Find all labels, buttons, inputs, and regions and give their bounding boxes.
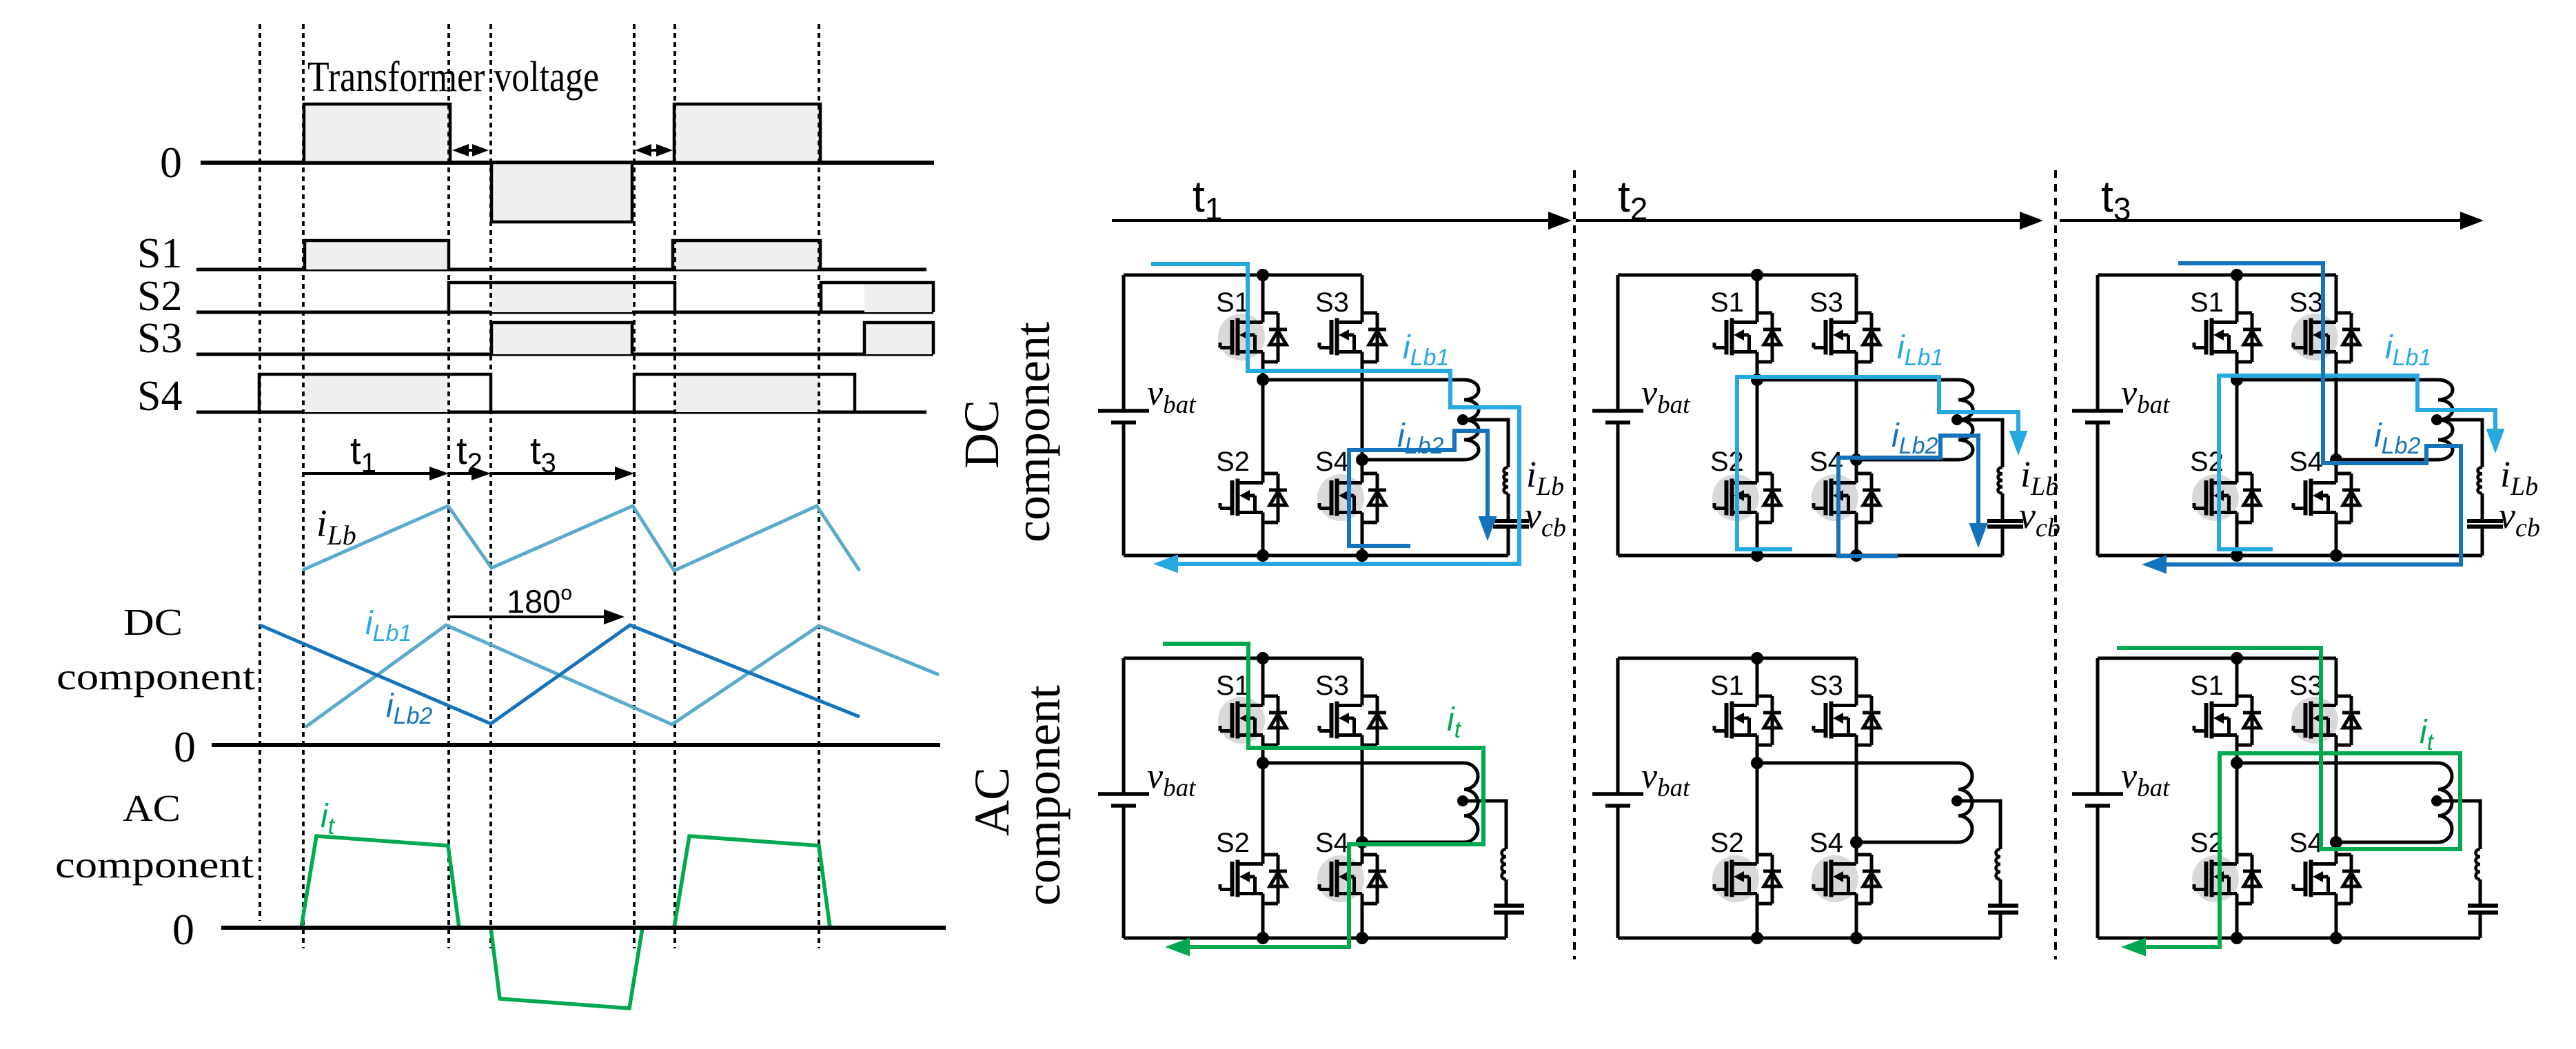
capacitor (t2 DC)	[1987, 521, 2023, 527]
wire: bottom rail (t1 DC)	[1124, 554, 1508, 558]
svg-text:S4: S4	[2289, 447, 2323, 477]
transformer winding (t1 DC)	[1464, 380, 1479, 460]
highlight circle on S3 (t3 DC)	[2291, 314, 2338, 360]
node: bottom rail junction S2 (t3 AC)	[2231, 932, 2243, 944]
wire: S1 leg (t1 AC)	[1261, 658, 1265, 938]
inductor (t1 DC)	[1504, 467, 1509, 493]
S3 gate pulse 1 fill	[491, 324, 632, 354]
highlight circle on S4 (t2 DC)	[1812, 474, 1858, 521]
battery v_bat (t1 DC)	[1098, 411, 1149, 422]
svg-text:component: component	[1015, 685, 1071, 906]
node: mid rail junction (t3 AC)	[2231, 757, 2243, 769]
S2 gate pulse 2 fill	[864, 284, 933, 312]
current path i_Lb1 (t1 DC)	[1151, 264, 1519, 564]
S1 gate pulse 2 outline	[673, 241, 820, 269]
svg-text:S3: S3	[1315, 671, 1349, 701]
waveform trace i_Lb	[303, 506, 860, 571]
wire: S1 leg (t2 AC)	[1756, 658, 1759, 938]
wire: mid rail node A to transformer (t2 DC)	[1757, 378, 1958, 382]
wire: battery leads (t2 AC)	[1616, 658, 1620, 938]
wire: dashed time grid x=651	[447, 24, 450, 948]
current path i_t (t3 AC)	[2117, 648, 2460, 947]
wire: centre tap to output branch (t2 DC)	[1957, 420, 2002, 467]
wire: dashed separator t2/t3	[2054, 170, 2057, 959]
node: bottom rail junction S4 (t1 AC)	[1356, 932, 1368, 944]
wire: capacitor to bottom rail (t1 DC)	[1507, 527, 1510, 556]
wire: bottom rail (t3 AC)	[2098, 937, 2480, 940]
wire: S1 leg (t3 AC)	[2235, 658, 2239, 938]
transformer winding (t3 AC)	[2438, 763, 2452, 842]
S1 gate pulse 1 outline	[305, 241, 449, 269]
inductor (t2 AC)	[1996, 849, 2001, 879]
180 degree phase arrow	[450, 615, 605, 618]
t1 interval arrow	[303, 472, 431, 475]
node: transformer centre tap (t3 AC)	[2431, 795, 2442, 806]
wire: mid rail node A to transformer (t1 DC)	[1263, 378, 1464, 382]
transistor S4 (t2 AC)	[1814, 855, 1880, 904]
wire: S3 leg (t1 AC)	[1361, 658, 1364, 938]
highlight circle on S1 (t1 DC)	[1218, 314, 1265, 360]
inductor (t2 DC)	[1998, 467, 2003, 493]
transistor S2 (t1 AC)	[1220, 855, 1287, 904]
current path i_Lb2 (t2 DC)	[1838, 436, 1978, 556]
transformer voltage positive pulse 1	[304, 104, 450, 163]
svg-text:S3: S3	[1315, 287, 1349, 318]
capacitor (t3 DC)	[2467, 521, 2503, 527]
node: S4 drain junction (t1 DC)	[1356, 454, 1368, 466]
transistor S2 (t3 DC)	[2194, 473, 2261, 522]
svg-text:S4: S4	[137, 373, 182, 420]
wire: top rail (t3 AC)	[2098, 657, 2336, 660]
svg-text:S3: S3	[1809, 287, 1843, 318]
node: mid rail junction (t3 DC)	[2231, 374, 2243, 386]
node: bottom rail junction S4 (t1 DC)	[1356, 549, 1368, 562]
battery v_bat (t3 AC)	[2072, 794, 2123, 806]
t3 interval arrow	[491, 472, 616, 475]
svg-text:S4: S4	[1809, 828, 1843, 858]
S4 gate pulse 1 outline	[259, 374, 491, 412]
node: S4 signal axis	[196, 411, 926, 414]
current path i_Lb2 (t3 DC)	[2162, 263, 2461, 564]
node: top rail junction (t2 DC)	[1751, 269, 1763, 281]
waveform trace i_t positive pulse 1	[301, 836, 459, 928]
transistor S3 (t2 AC)	[1814, 696, 1880, 745]
transistor S4 (t3 DC)	[2293, 473, 2360, 522]
wire: dashed time grid x=377	[258, 24, 261, 921]
wire: bottom rail (t2 DC)	[1618, 554, 2002, 558]
node: S2 signal axis	[196, 311, 933, 314]
svg-text:component: component	[1005, 322, 1060, 542]
node: S4 drain junction (t3 AC)	[2330, 836, 2342, 848]
highlight circle on S4 (t1 DC)	[1317, 474, 1364, 521]
wire: centre tap to output branch (t3 AC)	[2437, 801, 2480, 849]
wire: inductor to capacitor (t2 DC)	[2001, 493, 2005, 521]
S1 gate pulse 1 fill	[305, 242, 449, 269]
wire: S1 leg (t2 DC)	[1756, 275, 1759, 556]
inductor (t1 AC)	[1502, 849, 1506, 879]
wire: dashed time grid x=440	[302, 24, 305, 948]
wire: top rail (t1 DC)	[1124, 274, 1362, 277]
svg-text:AC: AC	[964, 767, 1020, 836]
transformer winding (t3 DC)	[2438, 380, 2453, 460]
wire: mid rail node A to transformer (t1 AC)	[1263, 762, 1464, 765]
node: top rail junction (t3 AC)	[2231, 652, 2243, 664]
S4 gate pulse 1 fill	[305, 376, 449, 412]
transformer winding (t2 AC)	[1958, 763, 1972, 842]
node: mid rail junction (t1 DC)	[1257, 374, 1269, 386]
S2 gate pulse 1 fill	[491, 284, 632, 312]
wire: centre tap to output branch (t2 AC)	[1957, 801, 2000, 849]
wire: battery leads (t3 AC)	[2096, 658, 2100, 938]
transistor S1 (t3 AC)	[2194, 696, 2261, 745]
transistor S4 (t1 AC)	[1319, 855, 1386, 904]
waveform trace i_Lb1	[305, 625, 939, 727]
battery v_bat (t2 DC)	[1592, 411, 1643, 422]
svg-text:0: 0	[174, 722, 196, 771]
svg-text:component: component	[55, 844, 254, 886]
svg-text:S1: S1	[2190, 287, 2224, 318]
wire: capacitor to bottom rail (t1 AC)	[1505, 913, 1508, 938]
highlight circle on S1 (t1 AC)	[1218, 697, 1265, 744]
wire: battery leads (t2 DC)	[1616, 275, 1620, 556]
svg-text:S1: S1	[1710, 671, 1744, 701]
inductor (t3 AC)	[2476, 849, 2481, 879]
node: top rail junction (t1 AC)	[1257, 652, 1269, 664]
node: transformer-voltage zero axis	[201, 161, 934, 165]
wire: dashed time grid x=979	[673, 24, 676, 948]
S2 gate pulse 2 outline	[821, 283, 933, 312]
transformer voltage negative pulse	[491, 163, 632, 222]
wire: inductor to capacitor (t2 AC)	[1999, 879, 2002, 906]
svg-text:S2: S2	[1216, 447, 1250, 477]
wire: bottom rail (t3 DC)	[2098, 554, 2482, 558]
t3 header arrow	[2060, 219, 2462, 222]
wire: mid rail node A to transformer (t2 AC)	[1757, 762, 1958, 765]
svg-text:S3: S3	[137, 315, 182, 362]
svg-text:S3: S3	[1809, 671, 1843, 701]
wire: node B to transformer bottom terminal (t1 DC)	[1362, 458, 1464, 462]
svg-text:S4: S4	[1315, 828, 1349, 858]
wire: node B to transformer bottom terminal (t3 AC)	[2336, 841, 2438, 844]
transformer winding (t1 AC)	[1464, 763, 1478, 842]
current path i_Lb2 (t1 DC)	[1349, 431, 1488, 546]
node: transformer centre tap (t3 DC)	[2431, 414, 2442, 425]
wire: S3 leg (t3 AC)	[2335, 658, 2338, 938]
svg-text:S4: S4	[2289, 828, 2323, 858]
node: S4 drain junction (t2 AC)	[1850, 836, 1863, 848]
dead-time double arrow 1	[467, 149, 474, 152]
transistor S4 (t2 DC)	[1814, 473, 1880, 522]
svg-text:AC: AC	[123, 787, 181, 829]
transformer winding (t2 DC)	[1958, 380, 1973, 460]
wire: top rail (t2 AC)	[1618, 657, 1856, 660]
svg-text:DC: DC	[123, 601, 183, 643]
wire: battery leads (t1 AC)	[1122, 658, 1126, 938]
wire: centre tap to output branch (t3 DC)	[2437, 420, 2482, 467]
transistor S3 (t3 DC)	[2293, 313, 2360, 362]
transistor S3 (t2 DC)	[1814, 313, 1880, 362]
node: bottom rail junction S4 (t3 AC)	[2330, 932, 2342, 944]
highlight circle on S2 (t2 AC)	[1712, 855, 1759, 902]
transistor S1 (t2 AC)	[1714, 696, 1781, 745]
svg-text:S2: S2	[1710, 828, 1744, 858]
node: DC component zero axis	[212, 743, 940, 747]
capacitor (t2 AC)	[1988, 906, 2018, 913]
node: transformer centre tap (t2 DC)	[1951, 414, 1963, 425]
node: top rail junction (t2 AC)	[1751, 652, 1763, 664]
node: AC component zero axis	[221, 926, 946, 930]
wire: top rail (t3 DC)	[2098, 274, 2336, 277]
wire: capacitor to bottom rail (t3 AC)	[2479, 913, 2482, 938]
capacitor (t3 AC)	[2468, 906, 2498, 913]
node: mid rail junction (t1 AC)	[1257, 757, 1269, 769]
wire: centre tap to output branch (t1 AC)	[1463, 801, 1506, 849]
node: bottom rail junction S4 (t2 DC)	[1850, 549, 1863, 562]
wire: inductor to capacitor (t3 DC)	[2481, 493, 2484, 521]
svg-text:Transformer voltage: Transformer voltage	[307, 54, 599, 101]
svg-text:S3: S3	[2289, 671, 2323, 701]
svg-text:S4: S4	[1315, 447, 1349, 477]
wire: top rail (t1 AC)	[1124, 657, 1362, 660]
node: bottom rail junction S4 (t2 AC)	[1850, 932, 1863, 944]
wire: bottom rail (t2 AC)	[1618, 937, 2000, 940]
current path i_Lb1 (t3 DC)	[2219, 376, 2495, 549]
transistor S2 (t3 AC)	[2194, 855, 2261, 904]
waveform trace i_Lb2	[260, 625, 860, 724]
S1 gate pulse 2 fill	[673, 242, 820, 269]
dead-time double arrow 2	[650, 149, 658, 152]
wire: centre tap to output branch (t1 DC)	[1463, 420, 1508, 467]
transistor S2 (t1 DC)	[1220, 473, 1287, 522]
wire: top rail (t2 DC)	[1618, 274, 1856, 277]
S4 gate pulse 2 fill	[675, 376, 819, 412]
wire: dashed time grid x=1188	[818, 24, 820, 948]
wire: capacitor to bottom rail (t2 DC)	[2001, 527, 2005, 556]
inductor (t3 DC)	[2478, 467, 2483, 493]
waveform trace i_t negative pulse	[491, 928, 642, 1008]
wire: battery leads (t3 DC)	[2096, 275, 2100, 556]
svg-text:component: component	[57, 655, 255, 697]
svg-text:S1: S1	[1710, 287, 1744, 318]
highlight circle on S2 (t3 DC)	[2192, 474, 2239, 521]
wire: mid rail node A to transformer (t3 DC)	[2237, 378, 2438, 382]
wire: battery leads (t1 DC)	[1122, 275, 1126, 556]
node: bottom rail junction S2 (t3 DC)	[2231, 549, 2243, 562]
svg-text:S1: S1	[1216, 287, 1250, 318]
transistor S1 (t1 AC)	[1220, 696, 1287, 745]
svg-text:DC: DC	[954, 400, 1009, 469]
node: bottom rail junction S4 (t3 DC)	[2330, 549, 2342, 562]
wire: mid rail node A to transformer (t3 AC)	[2237, 762, 2438, 765]
wire: node B to transformer bottom terminal (t2 DC)	[1856, 458, 1958, 462]
S3 gate pulse 2 outline	[864, 323, 933, 354]
svg-text:S2: S2	[1216, 828, 1250, 858]
node: bottom rail junction S2 (t1 DC)	[1257, 549, 1269, 562]
node: transformer centre tap (t1 DC)	[1457, 414, 1468, 425]
highlight circle on S2 (t2 DC)	[1712, 474, 1759, 521]
wire: S3 leg (t2 AC)	[1855, 658, 1858, 938]
wire: dashed time grid x=920	[633, 24, 636, 948]
current path i_Lb1 (t2 DC)	[1737, 377, 2018, 549]
wire: S3 leg (t2 DC)	[1855, 275, 1858, 556]
svg-text:S1: S1	[137, 230, 182, 277]
node: transformer centre tap (t2 AC)	[1951, 795, 1963, 806]
wire: S1 leg (t1 DC)	[1261, 275, 1265, 556]
current path i_t (t1 AC)	[1163, 644, 1483, 947]
S3 gate pulse 2 fill	[864, 324, 933, 354]
t1 header arrow	[1112, 219, 1550, 222]
wire: node B to transformer bottom terminal (t2 AC)	[1856, 841, 1958, 844]
transistor S2 (t2 DC)	[1714, 473, 1781, 522]
transistor S3 (t3 AC)	[2293, 696, 2360, 745]
highlight circle on S2 (t3 AC)	[2192, 855, 2239, 902]
svg-text:S2: S2	[137, 273, 182, 320]
node: S4 drain junction (t2 DC)	[1850, 454, 1863, 466]
wire: dashed time grid x=712	[489, 24, 492, 948]
wire: S1 leg (t3 DC)	[2235, 275, 2239, 556]
wire: capacitor to bottom rail (t2 AC)	[1999, 913, 2002, 938]
transistor S4 (t1 DC)	[1319, 473, 1386, 522]
highlight circle on S4 (t2 AC)	[1812, 855, 1858, 902]
transformer voltage positive pulse 2	[674, 104, 820, 163]
wire: S3 leg (t1 DC)	[1361, 275, 1364, 556]
transistor S4 (t3 AC)	[2293, 855, 2360, 904]
svg-text:S1: S1	[1216, 671, 1250, 701]
transistor S1 (t2 DC)	[1714, 313, 1781, 362]
battery v_bat (t2 AC)	[1592, 794, 1643, 806]
wire: inductor to capacitor (t1 AC)	[1505, 879, 1508, 906]
svg-text:S1: S1	[2190, 671, 2224, 701]
node: mid rail junction (t2 DC)	[1751, 374, 1763, 386]
waveform trace i_t positive pulse 2	[674, 836, 830, 928]
wire: node B to transformer bottom terminal (t1 AC)	[1362, 841, 1464, 844]
wire: S3 leg (t3 DC)	[2335, 275, 2338, 556]
wire: node B to transformer bottom terminal (t3 DC)	[2336, 458, 2438, 462]
svg-text:S3: S3	[2289, 287, 2323, 318]
node: S4 drain junction (t3 DC)	[2330, 454, 2342, 466]
node: S3 signal axis	[196, 353, 933, 356]
wire: inductor to capacitor (t1 DC)	[1507, 493, 1510, 521]
t2 header arrow	[1576, 219, 2021, 222]
battery v_bat (t1 AC)	[1098, 794, 1149, 806]
node: top rail junction (t3 DC)	[2231, 269, 2243, 281]
node: bottom rail junction S2 (t2 DC)	[1751, 549, 1763, 562]
node: S4 drain junction (t1 AC)	[1356, 836, 1368, 848]
transistor S2 (t2 AC)	[1714, 855, 1781, 904]
highlight circle on S3 (t3 AC)	[2291, 697, 2338, 744]
wire: bottom rail (t1 AC)	[1124, 937, 1506, 940]
node: mid rail junction (t2 AC)	[1751, 757, 1763, 769]
transistor S3 (t1 DC)	[1319, 313, 1386, 362]
wire: capacitor to bottom rail (t3 DC)	[2481, 527, 2484, 556]
svg-text:0: 0	[160, 138, 182, 187]
node: top rail junction (t1 DC)	[1257, 269, 1269, 281]
wire: dashed separator t1/t2	[1573, 170, 1576, 959]
S4 gate pulse 2 outline	[634, 374, 855, 412]
transistor S1 (t1 DC)	[1220, 313, 1287, 362]
S3 gate pulse 1 outline	[491, 323, 632, 354]
capacitor (t1 DC)	[1493, 521, 1529, 527]
wire: inductor to capacitor (t3 AC)	[2479, 879, 2482, 906]
capacitor (t1 AC)	[1494, 906, 1524, 913]
S2 gate pulse 1 outline	[449, 283, 675, 312]
node: bottom rail junction S2 (t2 AC)	[1751, 932, 1763, 944]
transistor S3 (t1 AC)	[1319, 696, 1386, 745]
battery v_bat (t3 DC)	[2072, 411, 2123, 422]
node: bottom rail junction S2 (t1 AC)	[1257, 932, 1269, 944]
t2 interval arrow	[449, 472, 473, 475]
highlight circle on S4 (t1 AC)	[1317, 855, 1364, 902]
node: transformer centre tap (t1 AC)	[1457, 795, 1468, 806]
svg-text:0: 0	[172, 905, 194, 954]
transistor S1 (t3 DC)	[2194, 313, 2261, 362]
node: S1 signal axis	[196, 268, 926, 272]
